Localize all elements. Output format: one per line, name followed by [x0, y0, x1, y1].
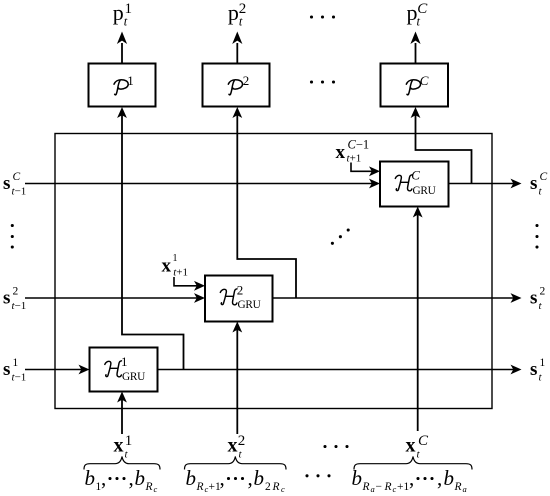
- svg-text:,: ,: [220, 466, 225, 490]
- wire s_{t-1}^1 input line: [25, 369, 82, 371]
- dots between P2 and PC: [310, 80, 335, 83]
- wire HC output to s_t^C: [449, 183, 515, 185]
- svg-text:,: ,: [248, 466, 253, 490]
- arrowhead s_t^2: [511, 293, 522, 303]
- svg-text:t−1: t−1: [12, 186, 27, 198]
- svg-text:2: 2: [243, 73, 250, 88]
- arrowhead p_t^C: [410, 32, 420, 45]
- dots between b groups: [305, 474, 330, 477]
- wire H2 output to s_t^2: [273, 297, 515, 299]
- svg-text:b: b: [85, 466, 96, 490]
- arrowhead into H2 left: [194, 293, 205, 303]
- svg-text:x: x: [162, 256, 172, 277]
- wire x_{t+1}^{C-1} elbow into HC: [351, 163, 373, 172]
- svg-text:x: x: [228, 435, 238, 457]
- svg-text:p: p: [113, 0, 124, 25]
- svg-text:2: 2: [238, 433, 246, 449]
- dots between x_t^2 and x_t^C: [323, 445, 348, 448]
- wire H1 output tap up to P1: [122, 112, 184, 370]
- svg-text:p: p: [228, 0, 239, 25]
- arrowhead into PC bottom: [411, 107, 421, 118]
- svg-text:GRU: GRU: [238, 299, 261, 311]
- svg-text:,: ,: [129, 466, 134, 490]
- svg-text:s: s: [3, 288, 10, 309]
- glyph script P of PC: [406, 80, 420, 95]
- wire x_t^C input: [417, 212, 419, 431]
- svg-text:t+1: t+1: [347, 153, 362, 165]
- svg-text:2: 2: [237, 283, 244, 298]
- svg-text:1: 1: [13, 357, 19, 369]
- svg-text:c: c: [281, 484, 285, 494]
- svg-text:s: s: [530, 359, 537, 380]
- box H1 GRU: [90, 348, 158, 392]
- svg-text:2: 2: [540, 286, 546, 298]
- svg-text:C: C: [13, 171, 21, 183]
- wire H2 output tap up to P2: [237, 112, 296, 298]
- svg-text:c: c: [154, 484, 158, 494]
- svg-text:R: R: [196, 481, 204, 493]
- arrowhead s_t^1: [511, 365, 522, 375]
- svg-text:t: t: [239, 449, 243, 461]
- svg-text:R: R: [362, 481, 370, 493]
- svg-text:2: 2: [265, 481, 271, 493]
- svg-text:t: t: [539, 186, 543, 198]
- wire x_{t+1}^1 elbow into H2: [174, 277, 198, 286]
- svg-text:t: t: [125, 449, 129, 461]
- svg-text:t: t: [417, 15, 421, 29]
- svg-text:t: t: [239, 15, 243, 29]
- glyph script H of HC: [395, 175, 412, 191]
- svg-text:t: t: [539, 300, 543, 312]
- svg-text:C−1: C−1: [348, 138, 370, 152]
- svg-text:R: R: [272, 481, 280, 493]
- wire H1 output to s_t^1: [158, 369, 515, 371]
- wire P2 to p_t^2 output: [236, 43, 238, 64]
- wire s_{t-1}^2 input line: [25, 297, 198, 299]
- arrowhead into HC bottom: [413, 207, 423, 218]
- brace group 1: [84, 457, 160, 470]
- box H2 GRU: [205, 276, 273, 322]
- svg-text:+1: +1: [397, 481, 409, 493]
- svg-text:t−1: t−1: [12, 372, 27, 384]
- arrowhead s_t^C: [511, 179, 522, 189]
- svg-text:R: R: [384, 481, 392, 493]
- vertical dots right: [535, 224, 538, 249]
- glyph script H of H2: [220, 289, 237, 305]
- svg-text:b: b: [135, 466, 146, 490]
- brace group 3: [354, 457, 472, 470]
- svg-text:R: R: [454, 481, 462, 493]
- brace group 2: [185, 457, 287, 470]
- svg-text:x: x: [336, 142, 346, 163]
- svg-text:C: C: [411, 168, 420, 183]
- vertical dots left: [11, 224, 14, 249]
- svg-text:2: 2: [13, 286, 19, 298]
- svg-text:b: b: [186, 466, 197, 490]
- box P2: [203, 64, 270, 107]
- glyph script H of H1: [105, 361, 122, 377]
- arrowhead into HC left: [369, 179, 380, 189]
- wire s_{t-1}^C input line: [25, 183, 373, 185]
- svg-text:GRU: GRU: [122, 371, 145, 383]
- svg-text:t: t: [417, 449, 421, 461]
- svg-text:t−1: t−1: [12, 300, 27, 312]
- svg-text:C: C: [540, 171, 548, 183]
- arrowhead into P1 bottom: [117, 107, 127, 118]
- svg-text:1: 1: [125, 433, 133, 449]
- svg-text:b: b: [352, 466, 363, 490]
- glyph script P of P2: [228, 80, 242, 95]
- svg-text:1: 1: [121, 354, 128, 369]
- svg-text:1: 1: [173, 253, 178, 264]
- box HC GRU: [380, 162, 449, 207]
- svg-text:x: x: [114, 435, 124, 457]
- svg-text:1: 1: [540, 357, 546, 369]
- wire x_t^1 input: [121, 397, 123, 434]
- svg-text:1: 1: [127, 73, 134, 88]
- arrowhead p_t^1: [117, 32, 127, 45]
- svg-text:−: −: [376, 481, 383, 493]
- svg-text:s: s: [3, 173, 10, 194]
- svg-text:s: s: [3, 359, 10, 380]
- svg-text:s: s: [530, 173, 537, 194]
- svg-text:,: ,: [437, 466, 442, 490]
- svg-text:c: c: [393, 484, 397, 494]
- svg-text:R: R: [145, 481, 153, 493]
- arrowhead p_t^2: [232, 32, 242, 45]
- svg-text:a: a: [371, 484, 375, 494]
- box PC: [381, 64, 449, 107]
- svg-text:GRU: GRU: [413, 185, 436, 197]
- svg-text:,: ,: [101, 466, 106, 490]
- svg-text:C: C: [420, 73, 429, 88]
- arrowhead into H2 bottom: [232, 322, 242, 333]
- arrowhead x_{t+1}^1 into H2 left: [194, 281, 205, 291]
- svg-text:t+1: t+1: [173, 267, 188, 279]
- svg-text:b: b: [444, 466, 455, 490]
- wire P1 to p_t^1 output: [121, 43, 123, 64]
- wire HC output tap up to PC: [416, 112, 472, 184]
- box P1: [89, 64, 156, 107]
- arrowhead into P2 bottom: [232, 107, 242, 118]
- svg-text:x: x: [406, 435, 416, 457]
- svg-text:t: t: [539, 372, 543, 384]
- wire x_t^2 input: [236, 327, 238, 434]
- svg-text:t: t: [124, 15, 128, 29]
- arrowhead into H1 bottom: [117, 392, 127, 403]
- svg-text:a: a: [463, 484, 467, 494]
- diagonal dots between H2 and HC: [331, 228, 350, 244]
- outer container box: [55, 134, 492, 409]
- svg-text:C: C: [418, 433, 429, 449]
- glyph script P of P1: [114, 80, 128, 95]
- dots between p_t^2 and p_t^C: [310, 15, 335, 18]
- svg-text:b: b: [254, 466, 265, 490]
- svg-text:,: ,: [409, 466, 414, 490]
- svg-text:s: s: [530, 288, 537, 309]
- wire PC to p_t^C output: [415, 43, 417, 64]
- arrowhead into H1 left: [79, 365, 90, 375]
- arrowhead x_{t+1}^{C-1} into HC left: [369, 166, 380, 176]
